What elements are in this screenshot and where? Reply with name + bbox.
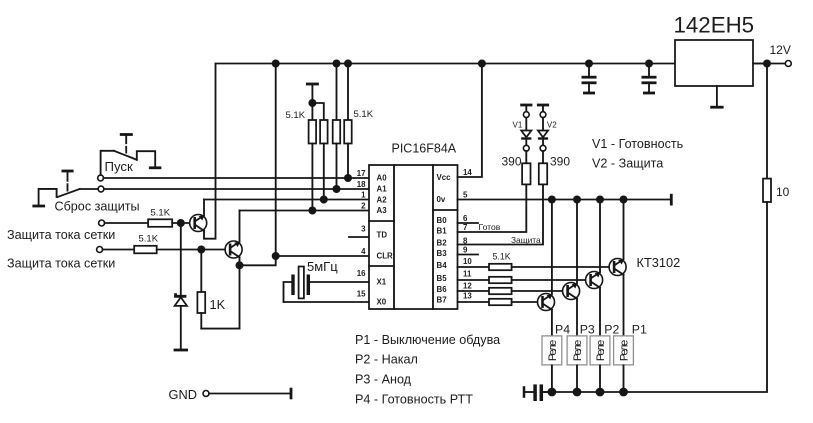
svg-text:12V: 12V	[770, 43, 791, 57]
svg-text:A0: A0	[377, 174, 388, 183]
svg-text:A2: A2	[377, 196, 388, 205]
wire Q2 emitter up to net A3	[239, 211, 241, 242]
terminal 12V	[785, 61, 791, 67]
wire net B7 pin 13	[458, 301, 490, 303]
transistor Q2	[225, 241, 242, 258]
wire input1 to R5	[105, 222, 149, 224]
svg-text:GND: GND	[169, 387, 197, 402]
svg-text:Реле: Реле	[595, 340, 607, 362]
wire Q1 emitter up to net A2	[203, 200, 205, 216]
wire left rail vertical down to Q1 collector dogleg	[204, 64, 216, 239]
node rail junction x275	[272, 60, 280, 68]
svg-text:4: 4	[361, 247, 366, 256]
pin numbers left	[357, 169, 366, 299]
svg-text:КТ3102: КТ3102	[637, 255, 681, 270]
wire regulator input from 12V	[753, 63, 785, 65]
svg-text:P2 - Накал: P2 - Накал	[355, 353, 418, 367]
node rail junction R4	[344, 60, 352, 68]
node 12V junction	[763, 60, 771, 68]
wire net A0 from Пуск to chip pin 17	[104, 177, 370, 179]
svg-text:V1 - Готовность: V1 - Готовность	[592, 137, 684, 151]
svg-text:11: 11	[463, 270, 472, 279]
svg-text:0v: 0v	[437, 195, 446, 204]
svg-text:P4 - Готовность РТТ: P4 - Готовность РТТ	[355, 392, 473, 406]
svg-text:Реле: Реле	[572, 340, 584, 362]
node Q2 collector junction	[236, 261, 244, 269]
svg-text:Сброс защиты: Сброс защиты	[55, 200, 140, 214]
terminal bar 0v end	[670, 194, 673, 206]
svg-text:9: 9	[463, 246, 468, 255]
wire net B4 pin 10	[458, 266, 490, 268]
wire R12 to Q5 base	[512, 290, 563, 292]
svg-text:P1 - Выключение обдува: P1 - Выключение обдува	[355, 333, 500, 347]
wire R11 to Q4 base	[512, 279, 586, 281]
transistor Q5 (P3)	[563, 200, 580, 337]
resistor R14 10	[763, 179, 771, 202]
node A2 pull-up junction	[320, 196, 328, 204]
svg-text:Защита тока сетки: Защита тока сетки	[7, 257, 115, 271]
wire Q2 collector to CLR	[240, 256, 276, 265]
node 0v junction Q6	[548, 196, 556, 204]
node 0v junction Q4	[596, 196, 604, 204]
svg-text:X1: X1	[377, 278, 387, 287]
node 0v junction Q5	[573, 196, 581, 204]
svg-text:Реле: Реле	[547, 340, 559, 362]
resistor R9 390	[539, 163, 547, 184]
supply T terminal for R1	[306, 83, 319, 86]
node junction zener	[177, 219, 185, 227]
pin labels right column	[437, 173, 452, 304]
relay K2 P2	[590, 336, 610, 392]
resistor R7 1K vertical	[197, 253, 225, 328]
svg-text:2: 2	[361, 202, 366, 211]
wire R5 to Q1 base	[172, 222, 190, 224]
svg-text:A1: A1	[377, 185, 388, 194]
svg-text:A3: A3	[377, 206, 388, 215]
svg-text:Реле: Реле	[619, 340, 631, 362]
svg-text:5: 5	[463, 191, 468, 200]
capacitor C2	[642, 64, 657, 94]
svg-text:B3: B3	[437, 249, 448, 258]
node bottom junction P1	[619, 388, 628, 397]
svg-text:B6: B6	[437, 285, 448, 294]
wire net B1 pin 7 to V1	[458, 184, 527, 232]
svg-text:390: 390	[502, 155, 522, 169]
resistor R4 5.1K pull-up A0	[344, 64, 352, 179]
svg-text:14: 14	[463, 168, 472, 177]
transistor Q1	[190, 215, 207, 232]
svg-text:6: 6	[463, 214, 468, 223]
svg-text:15: 15	[357, 290, 366, 299]
resistor R6 5.1K horizontal	[134, 246, 157, 254]
capacitor C1	[582, 64, 597, 94]
svg-text:Защита тока сетки: Защита тока сетки	[7, 228, 115, 242]
resistor R13 5.1K	[489, 299, 512, 305]
wire net CLR to chip pin 4	[276, 255, 369, 257]
svg-text:1K: 1K	[210, 297, 226, 312]
svg-text:V1: V1	[513, 121, 523, 130]
svg-text:B5: B5	[437, 274, 448, 283]
wire input2 to R6	[103, 249, 135, 251]
relay K3 P3	[567, 336, 587, 392]
svg-text:P3 - Анод: P3 - Анод	[355, 372, 412, 386]
node rail junction R3	[333, 60, 341, 68]
svg-text:V2 - Защита: V2 - Защита	[592, 157, 663, 171]
svg-text:5мГц: 5мГц	[307, 259, 338, 274]
pushbutton SB1 Пуск	[98, 135, 162, 181]
resistor R5 5.1K horizontal	[148, 219, 172, 227]
terminal GND	[169, 387, 292, 402]
svg-text:12: 12	[463, 282, 472, 291]
wire Q2 collector down	[239, 258, 241, 329]
svg-text:5.1K: 5.1K	[493, 251, 511, 261]
svg-text:3: 3	[361, 225, 366, 234]
node A1 pull-up junction	[333, 185, 341, 193]
LED V1	[513, 105, 533, 163]
svg-text:17: 17	[357, 169, 366, 178]
transistor Q6 (P4)	[538, 200, 555, 337]
node A0 pull-up junction	[344, 174, 352, 182]
wire net B2 pin 8 to V2	[458, 184, 544, 244]
transistor Q4 (P2)	[586, 200, 603, 337]
crystal ZQ1 5мГц	[284, 259, 339, 302]
svg-text:5.1K: 5.1K	[286, 110, 306, 121]
input terminal Защита тока сетки 2	[97, 247, 103, 253]
svg-text:CLR: CLR	[377, 252, 394, 261]
wire net B5 pin 11	[458, 279, 490, 281]
node A3 pull-up junction	[308, 207, 316, 215]
pin labels left column	[377, 174, 394, 307]
node 0v junction Q3	[620, 196, 628, 204]
svg-text:16: 16	[357, 269, 366, 278]
wire +5V top rail	[216, 63, 768, 65]
stub TD pin 3	[349, 236, 369, 238]
svg-text:13: 13	[463, 292, 472, 301]
svg-text:V2: V2	[547, 121, 557, 130]
svg-text:5.1K: 5.1K	[354, 109, 374, 120]
node bottom junction P2	[596, 388, 605, 397]
svg-text:Готов: Готов	[479, 222, 501, 232]
svg-text:18: 18	[357, 180, 366, 189]
svg-text:Vcc: Vcc	[437, 173, 452, 182]
resistor R1 5.1K pull-up A3	[309, 84, 317, 211]
wire net B6 pin 12	[458, 290, 490, 292]
wire net X0 to chip pin 15	[284, 301, 370, 303]
node rail junction C1	[585, 60, 593, 68]
relay K1 P1	[614, 336, 634, 392]
svg-text:Пуск: Пуск	[105, 159, 134, 174]
resistor R8 390	[522, 163, 530, 184]
wire net A2 to chip pin 1	[204, 199, 369, 201]
regulator U2 142EH5	[674, 13, 755, 108]
svg-text:B1: B1	[437, 227, 448, 236]
resistor R10 5.1K	[489, 264, 512, 270]
node rail junction Vcc	[478, 60, 486, 68]
LED V2	[537, 105, 557, 163]
stub B3 pin 9	[458, 254, 479, 256]
wire R13 to Q6 base	[512, 301, 538, 303]
svg-text:7: 7	[463, 223, 468, 232]
wire R10 to Q3 base	[512, 266, 610, 268]
svg-text:B2: B2	[437, 239, 448, 248]
node junction 1K	[197, 246, 205, 254]
relay K4 P4	[542, 336, 562, 392]
input terminal Защита тока сетки 1	[99, 220, 105, 226]
svg-text:P1: P1	[632, 323, 647, 337]
wire net A3 to chip pin 2	[240, 210, 370, 212]
svg-text:P2: P2	[604, 323, 619, 337]
wire right rail to bottom	[545, 202, 767, 392]
switch SA1 Сброс защиты	[32, 171, 139, 214]
svg-text:Защита: Защита	[511, 235, 541, 245]
resistor R2 5.1K pull-up A2	[320, 120, 328, 200]
wire R1 tap to R2 top	[312, 103, 323, 120]
wire vertical from rail to CLR node	[275, 64, 277, 257]
wire 1K bottom to Q2 collector	[201, 328, 239, 330]
wire net X1 to chip pin 16	[310, 281, 369, 283]
svg-text:10: 10	[776, 185, 790, 199]
stub B0 pin 6	[458, 222, 479, 224]
pin numbers right	[463, 168, 472, 301]
zener diode VD1	[174, 227, 188, 350]
resistor R11 5.1K	[489, 277, 512, 283]
wire Vcc pin 14 to rail	[458, 64, 482, 178]
svg-text:5.1K: 5.1K	[139, 234, 159, 245]
capacitor C3 with ground	[524, 384, 552, 401]
svg-text:5.1K: 5.1K	[151, 208, 171, 219]
node CLR junction	[272, 252, 280, 260]
svg-text:P3: P3	[580, 323, 595, 337]
transistor Q3 KT3102 (P1)	[609, 200, 626, 337]
wire R6 to Q2 base	[157, 249, 226, 251]
node bottom junction P4	[548, 388, 557, 397]
node R1 tap	[308, 99, 316, 107]
resistor R3 5.1K pull-up A1	[333, 64, 341, 190]
node rail junction C2	[645, 60, 653, 68]
svg-text:TD: TD	[377, 231, 388, 240]
svg-text:PIC16F84A: PIC16F84A	[392, 142, 457, 156]
IC U1 PIC16F84A	[369, 142, 458, 310]
svg-text:1: 1	[361, 191, 366, 200]
svg-text:P4: P4	[555, 323, 570, 337]
svg-text:B0: B0	[437, 216, 448, 225]
wire net A1 from Сброс to chip pin 18	[104, 188, 369, 190]
node bottom junction P3	[573, 388, 582, 397]
svg-text:390: 390	[550, 155, 570, 169]
resistor R12 5.1K	[489, 288, 512, 294]
svg-text:B4: B4	[437, 261, 448, 270]
svg-text:X0: X0	[377, 298, 387, 307]
svg-text:B7: B7	[437, 296, 448, 305]
svg-text:142ЕН5: 142ЕН5	[674, 13, 755, 38]
svg-text:10: 10	[463, 257, 472, 266]
wire right rail down	[766, 64, 768, 179]
wire net 0v pin 5	[458, 199, 672, 201]
